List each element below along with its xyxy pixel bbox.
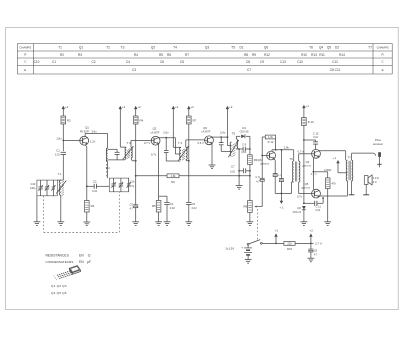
- table row 3 capacitor designators: [34, 60, 339, 64]
- wire gang box to ground: [36, 196, 38, 222]
- svg-text:C7: C7: [231, 164, 235, 168]
- resistor 47k bias: [325, 172, 336, 189]
- svg-text:0,02: 0,02: [241, 151, 246, 154]
- wire emitter to C4: [159, 196, 167, 202]
- wire Q3 emitter to ground: [211, 144, 213, 165]
- svg-text:Q4: Q4: [306, 160, 310, 164]
- capacitor C13: [279, 150, 284, 194]
- svg-text:3,6v: 3,6v: [91, 130, 97, 134]
- battery 2x1.5V: [226, 245, 253, 259]
- transistor Q6: [258, 151, 276, 166]
- wire C9 to R12: [262, 136, 265, 138]
- svg-text:R10: R10: [301, 53, 307, 57]
- ground R5: [155, 222, 162, 226]
- svg-text:+2: +2: [65, 105, 69, 109]
- svg-text:1,5k: 1,5k: [171, 174, 177, 178]
- svg-text:R6: R6: [171, 180, 175, 184]
- svg-text:Q2: Q2: [153, 127, 157, 131]
- svg-text:Q2: Q2: [151, 46, 155, 50]
- wire R7 column to bus: [188, 124, 190, 176]
- wire Q2 emitter: [151, 144, 159, 200]
- svg-text:C13: C13: [280, 60, 286, 64]
- svg-text:R8: R8: [244, 53, 248, 57]
- wire Q1 emitter: [85, 145, 88, 200]
- capacitor C2: [87, 180, 110, 193]
- wire R15 to C6 node: [295, 242, 322, 246]
- trimmer capacitor: [51, 180, 55, 196]
- svg-text:220: 220: [287, 242, 292, 246]
- supply arrow +2 node R7: [187, 105, 194, 116]
- wire R9 to node: [249, 165, 251, 201]
- svg-text:2,6v: 2,6v: [220, 130, 226, 134]
- svg-text:Q1 Q2 Q3: Q1 Q2 Q3: [51, 284, 67, 288]
- resistor R3: [85, 201, 95, 213]
- svg-text:T5: T5: [231, 46, 235, 50]
- capacitor C5: [186, 176, 197, 222]
- wire Q1 base: [56, 136, 80, 140]
- svg-text:CHAMPS: CHAMPS: [19, 45, 31, 49]
- svg-text:1,8v: 1,8v: [56, 136, 62, 140]
- svg-text:D1: D1: [242, 126, 246, 130]
- capacitor C12: [304, 131, 319, 149]
- svg-text:C2: C2: [93, 180, 97, 184]
- capacitor C7: [230, 164, 250, 173]
- svg-text:D2: D2: [335, 46, 339, 50]
- svg-text:R7: R7: [185, 53, 189, 57]
- svg-text:4,7: 4,7: [256, 180, 260, 183]
- svg-text:+2: +2: [190, 105, 194, 109]
- svg-text:0,7 V: 0,7 V: [144, 141, 150, 145]
- svg-text:T7: T7: [347, 156, 351, 160]
- gang link dashed: [44, 192, 120, 233]
- resistor R2: [61, 116, 71, 124]
- diode D1: [240, 126, 250, 138]
- svg-text:T1: T1: [58, 46, 62, 50]
- svg-text:C5: C5: [180, 60, 184, 64]
- svg-text:0,7v: 0,7v: [297, 194, 303, 198]
- svg-text:R4: R4: [140, 119, 144, 123]
- svg-text:C4: C4: [170, 202, 174, 206]
- wire T1 to ground: [60, 195, 62, 222]
- IF transformer T4: [178, 141, 188, 161]
- tuning capacitor gang C10 box: [30, 180, 57, 196]
- svg-text:0,01: 0,01: [55, 154, 60, 157]
- ground T5 node: [236, 186, 243, 190]
- svg-text:CONDENSATEURS: CONDENSATEURS: [46, 260, 74, 264]
- svg-text:+2: +2: [137, 105, 141, 109]
- resistor R6: [167, 174, 179, 184]
- svg-text:0,02: 0,02: [170, 207, 175, 210]
- svg-text:R 10: R 10: [308, 120, 314, 124]
- svg-text:C 11: C 11: [316, 205, 322, 209]
- svg-text:R12: R12: [264, 53, 270, 57]
- wire T5 secondary bottom to C8 line: [236, 148, 240, 150]
- svg-text:0,01: 0,01: [316, 209, 321, 212]
- ground D2: [301, 222, 308, 226]
- transistor Q3: [198, 126, 226, 145]
- svg-text:T3: T3: [121, 46, 125, 50]
- svg-text:+1: +1: [306, 104, 310, 108]
- svg-text:+2: +2: [229, 105, 233, 109]
- trimmer osc: [127, 178, 131, 192]
- ground C3: [132, 222, 139, 226]
- svg-text:C 9: C 9: [255, 175, 260, 179]
- capacitor C6: [308, 243, 317, 258]
- component table grid: [17, 44, 392, 75]
- capacitor C4: [164, 202, 175, 222]
- ground C4: [164, 222, 171, 226]
- wire wiper to C9: [258, 181, 262, 207]
- svg-text:C10: C10: [297, 60, 303, 64]
- svg-text:R13: R13: [311, 53, 317, 57]
- transistor Q5: [301, 182, 321, 198]
- svg-text:+2: +2: [122, 105, 126, 109]
- svg-text:R3: R3: [91, 204, 95, 208]
- supply arrow +2 node T3: [119, 105, 126, 147]
- svg-text:8 Ω: 8 Ω: [373, 182, 377, 184]
- svg-text:2,7 V: 2,7 V: [315, 242, 322, 246]
- svg-text:E: E: [382, 68, 384, 72]
- svg-text:2,6v: 2,6v: [163, 130, 169, 134]
- wire T2 to oscillator gang: [107, 161, 109, 178]
- wire T5 column to ground: [238, 149, 240, 186]
- svg-text:RESISTANCES: RESISTANCES: [46, 254, 70, 258]
- svg-text:C 12: C 12: [313, 131, 319, 135]
- svg-text:C1b: C1b: [130, 181, 135, 184]
- wire R4 column to bus: [135, 124, 137, 177]
- supply arrow +1 battery: [274, 229, 278, 244]
- capacitor emitter bypass: [273, 174, 282, 194]
- svg-text:140p: 140p: [30, 187, 36, 190]
- svg-text:Q4 Q5 Q6: Q4 Q5 Q6: [51, 291, 67, 295]
- AF transformer T6: [289, 150, 300, 182]
- supply arrow +2 node T4: [172, 105, 179, 130]
- svg-text:0,02: 0,02: [230, 171, 235, 174]
- wire 47k to ground: [327, 189, 329, 222]
- svg-text:Q3: Q3: [203, 126, 207, 130]
- wire Q3 collector to T5: [212, 136, 232, 145]
- svg-text:R5: R5: [152, 204, 156, 208]
- antenna coil T1: [56, 172, 66, 196]
- earphone jack: [373, 138, 383, 167]
- ground Q3 emitter: [209, 165, 216, 169]
- svg-text:CHAMPS: CHAMPS: [377, 45, 389, 49]
- padder capacitor: [108, 149, 125, 160]
- svg-text:R4: R4: [134, 53, 138, 57]
- svg-text:1,2v: 1,2v: [90, 140, 96, 144]
- transistor package drawing: [54, 266, 81, 282]
- diode D2: [293, 206, 306, 222]
- svg-text:0,2 W: 0,2 W: [373, 178, 380, 180]
- neutralizing capacitor Q2: [164, 138, 181, 161]
- svg-text:4,7: 4,7: [314, 253, 318, 256]
- svg-text:R14: R14: [339, 53, 345, 57]
- wire T5 secondary top to D1: [236, 136, 240, 139]
- svg-text:Q5: Q5: [327, 46, 331, 50]
- table row 1 stage designators: [58, 46, 372, 50]
- wire R10 column down: [303, 126, 305, 205]
- svg-text:C9: C9: [260, 60, 264, 64]
- wire T7 secondary bottom chassis: [349, 181, 355, 195]
- wire switch to R15: [262, 243, 284, 245]
- svg-text:uA8092/3: uA8092/3: [260, 163, 270, 166]
- svg-text:T 2: T 2: [106, 166, 111, 170]
- svg-text:D2: D2: [297, 206, 301, 210]
- svg-text:0,02: 0,02: [92, 190, 97, 193]
- resistor R7: [187, 116, 197, 124]
- svg-text:R2: R2: [60, 53, 64, 57]
- ground C6: [308, 258, 315, 262]
- resistor R12: [265, 135, 275, 144]
- svg-text:-: -: [242, 255, 243, 259]
- svg-text:0,02: 0,02: [192, 207, 197, 210]
- switch link dashed: [257, 209, 259, 241]
- transistor Q4: [302, 149, 321, 167]
- wire T3 secondary to Q2 base: [131, 140, 151, 147]
- wire T7 secondary to jack: [352, 153, 376, 160]
- wire T7 primary bottom: [346, 181, 348, 196]
- AGC bus wire: [136, 175, 250, 177]
- IF transformer T5: [228, 132, 239, 158]
- svg-text:+ 1: + 1: [332, 156, 336, 160]
- svg-text:FN 907F: FN 907F: [80, 130, 90, 133]
- svg-text:Q6: Q6: [258, 158, 262, 162]
- legend condensateurs: [46, 260, 91, 264]
- svg-text:R7: R7: [193, 119, 197, 123]
- wire to T6 primary bottom: [292, 182, 294, 193]
- svg-text:EN: EN: [79, 254, 84, 258]
- wire R3 to ground: [86, 212, 88, 222]
- svg-text:E: E: [24, 68, 26, 72]
- svg-text:C3: C3: [130, 202, 134, 206]
- svg-text:R8: R8: [243, 205, 247, 209]
- potentiometer R8 volume: [243, 201, 258, 213]
- svg-text:C2: C2: [91, 60, 95, 64]
- node +1 feed amp: [275, 193, 291, 195]
- svg-text:R3: R3: [78, 53, 82, 57]
- svg-text:C 8: C 8: [242, 143, 247, 147]
- svg-text:CDG 24: CDG 24: [293, 212, 302, 214]
- supply arrow +2 node T5: [226, 105, 233, 137]
- svg-text:+2: +2: [310, 229, 314, 233]
- svg-text:C6: C6: [160, 60, 164, 64]
- resistor R10: [302, 118, 314, 126]
- svg-text:+ 1: + 1: [279, 206, 283, 210]
- AF transformer T7: [346, 156, 353, 181]
- svg-text:17p: 17p: [130, 185, 135, 188]
- svg-text:R9: R9: [252, 53, 256, 57]
- wire +2 to T4 primary top: [173, 130, 180, 147]
- wire Q6 emitter: [273, 159, 275, 174]
- supply arrow +1 node R10: [302, 104, 309, 117]
- svg-text:Q1: Q1: [79, 46, 83, 50]
- wire Q4 collector to T7: [319, 151, 346, 160]
- table row 4 capacitor designators: [132, 68, 341, 72]
- oscillator coil T2: [106, 148, 111, 178]
- ground 47k: [324, 222, 331, 226]
- capacitor C11: [304, 197, 324, 212]
- variable capacitor osc b: [119, 178, 123, 192]
- wire Q6 base: [262, 155, 267, 157]
- svg-text:0,7v: 0,7v: [151, 153, 157, 157]
- svg-text:2x1,5V: 2x1,5V: [226, 247, 235, 251]
- table row 2 resistor designators: [60, 53, 345, 57]
- svg-text:R11: R11: [319, 53, 325, 57]
- wire T4 secondary to Q3 base: [186, 140, 205, 147]
- emitter node to bias: [313, 169, 332, 172]
- variable capacitor C10a: [38, 180, 42, 196]
- ground R3: [83, 222, 90, 226]
- wire Q2 collector to T4: [159, 137, 181, 154]
- wire T3 primary bottom to padder rail: [125, 158, 127, 160]
- capacitor C1: [55, 148, 66, 156]
- loudspeaker: [364, 175, 379, 185]
- svg-text:C5: C5: [192, 202, 196, 206]
- variable capacitor C10b: [45, 180, 49, 196]
- oscillator gang box: [109, 178, 135, 192]
- supply arrow +1 T7: [332, 156, 347, 173]
- resistor R5: [152, 201, 161, 213]
- svg-text:T4: T4: [173, 46, 177, 50]
- wire Q1 collector to T2: [85, 130, 108, 149]
- wire T6 secondary to Q4 base: [298, 149, 312, 161]
- svg-text:R15: R15: [287, 247, 292, 251]
- svg-text:C10: C10: [30, 182, 35, 186]
- svg-text:0,009v: 0,009v: [324, 169, 332, 172]
- capacitor C3: [130, 176, 139, 222]
- supply arrow +2 node R2: [62, 105, 69, 116]
- svg-text:R2: R2: [67, 119, 71, 123]
- svg-text:C4: C4: [126, 60, 130, 64]
- svg-text:C12: C12: [332, 60, 338, 64]
- speaker chassis bar: [363, 185, 369, 195]
- svg-text:CDG GE: CDG GE: [240, 132, 250, 134]
- svg-text:T5: T5: [232, 132, 236, 136]
- svg-text:écouteur: écouteur: [373, 142, 383, 146]
- svg-text:C6: C6: [314, 248, 318, 252]
- svg-text:+1: +1: [275, 229, 279, 233]
- resistor R4: [133, 116, 143, 124]
- wire Q5 collector: [319, 195, 348, 197]
- wire Q5 emitter: [313, 171, 315, 190]
- svg-text:Q1: Q1: [85, 126, 89, 130]
- capacitor C9: [255, 137, 264, 183]
- variable capacitor osc a: [111, 178, 115, 192]
- wire T4 secondary bottom to R7 column: [186, 160, 190, 162]
- svg-text:0,01: 0,01: [313, 136, 318, 139]
- svg-text:+: +: [241, 246, 243, 250]
- capacitor C8: [239, 143, 251, 155]
- wire detector column: [249, 136, 251, 155]
- svg-text:T7: T7: [368, 46, 372, 50]
- svg-text:T 1: T 1: [57, 172, 62, 176]
- IF transformer T3: [120, 141, 133, 159]
- supply arrow +2 battery: [309, 229, 313, 244]
- ground battery: [245, 260, 252, 264]
- svg-text:Q6: Q6: [264, 46, 268, 50]
- svg-text:C8 C11: C8 C11: [330, 68, 341, 72]
- svg-text:C10: C10: [34, 60, 40, 64]
- svg-text:0,7 v: 0,7 v: [298, 149, 304, 153]
- supply arrow +1 amp: [279, 193, 283, 209]
- svg-text:R6: R6: [167, 53, 171, 57]
- svg-text:µF: µF: [87, 260, 91, 264]
- wire T3 secondary bottom to R4 column: [131, 158, 137, 162]
- svg-text:Q4: Q4: [319, 46, 323, 50]
- svg-text:uA 907F: uA 907F: [151, 131, 160, 134]
- ground T1: [57, 222, 64, 226]
- wire R5 ground: [158, 212, 160, 222]
- wire Q4 emitter: [311, 158, 317, 176]
- svg-text:C1: C1: [52, 60, 56, 64]
- svg-text:C3: C3: [132, 68, 136, 72]
- svg-text:T 3: T 3: [126, 141, 131, 145]
- ground R8: [247, 222, 254, 226]
- resistor R15: [284, 242, 295, 252]
- resistor R9: [248, 155, 258, 165]
- ground C5: [185, 222, 192, 226]
- legend resistances: [46, 254, 92, 258]
- svg-text:0,6 V: 0,6 V: [198, 141, 204, 145]
- wire gang to T1: [57, 179, 63, 181]
- svg-text:4,7: 4,7: [130, 208, 134, 211]
- wire R2 to base node: [62, 124, 64, 151]
- svg-text:C7: C7: [247, 68, 251, 72]
- svg-text:uA9013G: uA9013G: [301, 187, 311, 190]
- neutralizing capacitor Q3: [219, 137, 232, 151]
- wire C1 to T1: [62, 155, 64, 181]
- ground tuning gang: [34, 222, 41, 226]
- svg-text:1,2k: 1,2k: [268, 135, 274, 139]
- supply arrow +2 node R4: [134, 105, 141, 116]
- wire Q6 collector: [272, 139, 294, 151]
- svg-text:+2: +2: [175, 105, 179, 109]
- table row labels: [19, 45, 388, 72]
- wire R8 to ground: [249, 212, 251, 221]
- svg-text:47k: 47k: [332, 182, 337, 186]
- svg-text:R5: R5: [159, 53, 163, 57]
- svg-text:C1: C1: [56, 148, 60, 152]
- legend transistor list: [51, 284, 67, 295]
- wire T6 secondary to Q5 base: [297, 182, 312, 198]
- transistor Q2: [144, 127, 169, 146]
- svg-text:T 4: T 4: [178, 141, 183, 145]
- svg-text:Q5: Q5: [305, 182, 309, 186]
- switch: [247, 240, 262, 246]
- svg-text:uA9013G: uA9013G: [302, 165, 312, 168]
- svg-text:T6: T6: [309, 46, 313, 50]
- svg-text:C8: C8: [246, 60, 250, 64]
- svg-text:R 12: R 12: [268, 140, 274, 144]
- svg-text:D1: D1: [239, 46, 243, 50]
- svg-text:T2: T2: [106, 46, 110, 50]
- svg-text:Prise: Prise: [375, 138, 381, 142]
- svg-text:2,9k: 2,9k: [284, 146, 290, 150]
- transistor Q1: [80, 126, 96, 146]
- svg-text:T6: T6: [289, 157, 293, 161]
- svg-text:c: c: [56, 279, 57, 281]
- svg-text:EN: EN: [79, 260, 84, 264]
- svg-text:uA 907F: uA 907F: [202, 131, 211, 134]
- svg-text:Q3: Q3: [205, 46, 209, 50]
